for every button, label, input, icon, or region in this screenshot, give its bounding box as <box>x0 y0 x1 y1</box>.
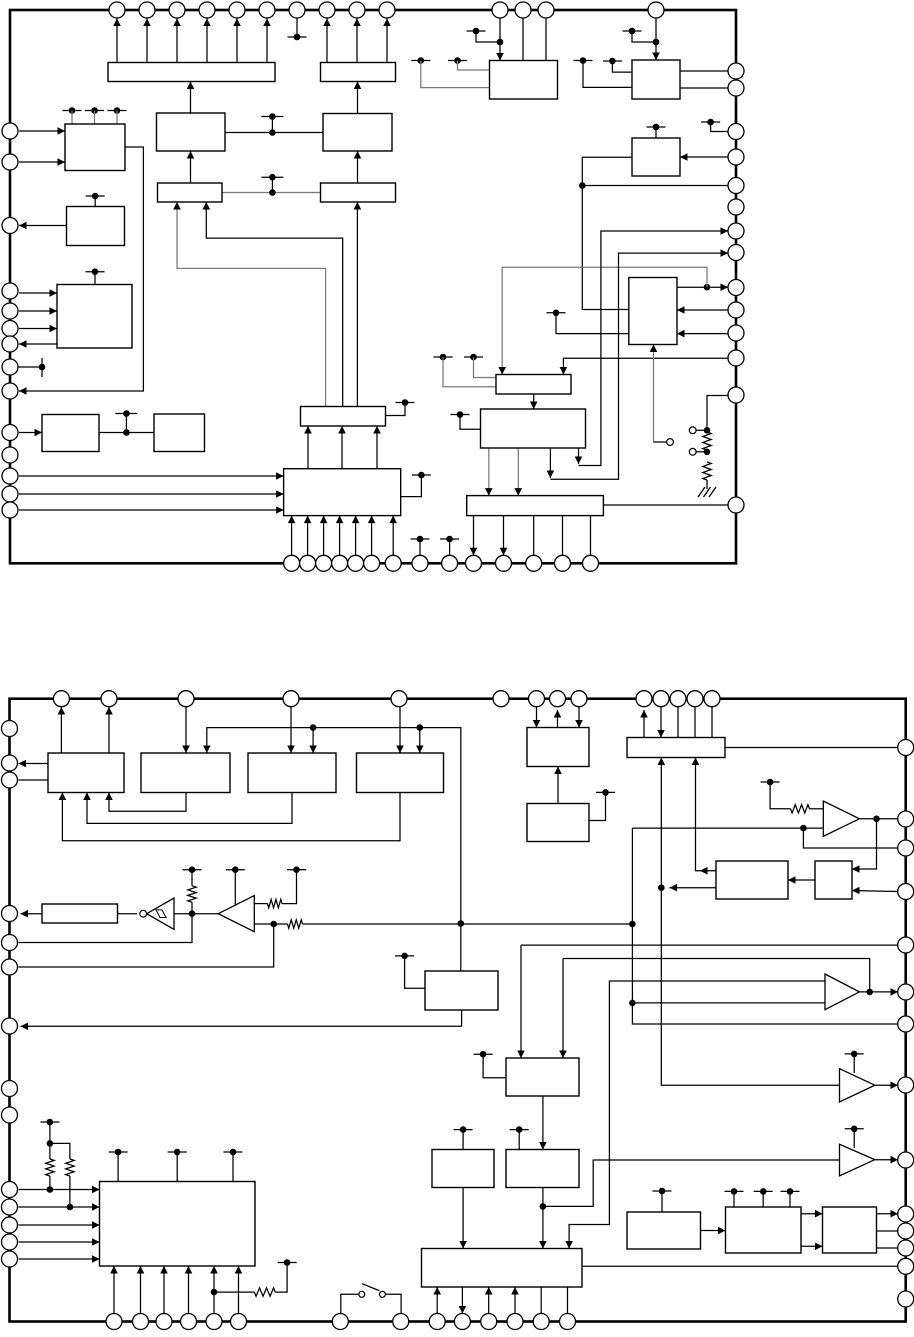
wire U4 to U2 <box>190 151 192 183</box>
wire net X to A2 lower input <box>632 1002 825 1004</box>
bottom pin 13 <box>555 555 571 571</box>
stub into W2 top <box>462 1130 464 1150</box>
stub into X3 top at x=734 <box>733 1191 735 1207</box>
wire bottom pin to X1 at x=164 <box>163 1266 165 1314</box>
wire top pin to V5 a <box>536 707 538 728</box>
latch U4 <box>158 183 223 202</box>
power tap U15 left b <box>434 356 453 358</box>
branch A1 out to V9 <box>852 819 877 869</box>
block V9 <box>815 861 852 899</box>
power tap left of U13 pin wire <box>623 30 642 32</box>
power tap U13 far left <box>574 60 593 62</box>
left pin 3 <box>2 218 18 234</box>
power tap left of V11 <box>395 955 414 957</box>
wire X2 to X3 <box>701 1230 726 1232</box>
bottom pin 7 <box>385 555 401 571</box>
left pin 7 <box>2 336 18 352</box>
wire bus A bit0 to top pin <box>116 19 118 63</box>
wire bus B bit0 to top pin <box>326 19 328 63</box>
power tap above U6 at x=72 <box>63 110 82 112</box>
wire bottom pin to mux at x=393.2 <box>392 516 394 556</box>
power tap U12 left b <box>411 60 430 62</box>
D2 top pin 8 <box>550 691 566 707</box>
D2 left pin 9 <box>2 1107 18 1123</box>
net clock row <box>207 728 461 971</box>
D2 left pin 10 <box>2 1182 18 1198</box>
right pin 5 <box>728 178 744 194</box>
stub to bottom pin x=420 <box>419 539 421 556</box>
wire bus B bit1 to top pin <box>356 19 358 63</box>
D2 top pin 13 <box>687 691 703 707</box>
switch common contact <box>667 439 674 446</box>
D2 bottom pin 6 <box>231 1314 247 1330</box>
power tap for Rc <box>278 1262 297 1264</box>
wire bottom pin to W4 c <box>514 1287 516 1314</box>
wire pin L4 to U8 <box>19 292 57 294</box>
wire U13 to pin R1 <box>680 70 728 72</box>
block U16 <box>481 409 586 448</box>
wire pin to osc input <box>19 914 193 943</box>
power tap osc right <box>287 869 306 871</box>
power tap pull-ups <box>40 1121 59 1123</box>
wire U16 down-right b <box>578 448 580 464</box>
wire A1 out to pin <box>859 818 898 820</box>
left pin 6 <box>2 321 18 337</box>
D2 top pin 12 <box>670 691 686 707</box>
ground <box>698 487 716 497</box>
wire R up to tap <box>282 870 297 904</box>
stub into U6 top at x=72 <box>71 111 73 125</box>
wire V5 to top pin <box>557 710 559 728</box>
wire bottom pin to mux at x=307.6 <box>307 516 309 556</box>
right pin 1 <box>728 63 744 79</box>
wire V1 to top pin 1 <box>60 707 62 753</box>
D2 bottom pin 12 <box>507 1314 523 1330</box>
arrowhead into V2 top <box>203 746 211 754</box>
branch into V3 top <box>312 728 314 753</box>
wire W4 to bottom pin <box>461 1287 463 1314</box>
D2 right pin 10 <box>898 1206 914 1222</box>
right pin 3 <box>728 124 744 140</box>
resistor divider upper <box>703 432 711 450</box>
Rc to tap <box>275 1263 287 1293</box>
D2 right pin 12 <box>898 1240 914 1256</box>
wire bottom pin to W4 e <box>567 1287 569 1314</box>
wire schmitt to V10 <box>118 913 137 915</box>
D2 top pin 6 <box>493 691 509 707</box>
bottom pin 3 <box>316 555 332 571</box>
top pin 12 <box>515 2 531 18</box>
wire top pin to U13 <box>655 18 657 61</box>
left pin 13 <box>2 486 18 502</box>
wire pin R9 to U15 <box>563 358 728 374</box>
wire bus A bit2 to top pin <box>176 19 178 63</box>
stub into X1 top at x=233 <box>232 1152 234 1182</box>
top pin 7 <box>289 2 305 18</box>
wire W4 to right pin <box>582 1265 898 1267</box>
stub into A3 top <box>853 1054 855 1073</box>
inverting amp U21 <box>218 896 254 932</box>
net serial V7-A3 <box>661 758 839 1086</box>
D2 top pin 4 <box>283 691 299 707</box>
switch right lead <box>386 1294 401 1313</box>
wire V1 out to pin <box>19 763 49 765</box>
D2 left pin 1 <box>2 721 18 737</box>
stub into U6 top at x=94.5 <box>94 111 96 125</box>
power tap above X3 at x=790 <box>781 1190 800 1192</box>
wire to pull-up Rc <box>214 1291 254 1293</box>
block U8 <box>57 285 132 349</box>
wire bus A bit4 to top pin <box>236 19 238 63</box>
D2 bottom pin 8 <box>393 1314 409 1330</box>
wire mux to U11 at x=308 <box>307 426 309 469</box>
D2 top pin 10 <box>636 691 652 707</box>
net A2out to W1 <box>563 959 870 992</box>
D2 right pin 4 <box>898 884 914 900</box>
wire pin L10 to U9 <box>19 432 42 434</box>
wire X3 to X4 a <box>801 1213 823 1215</box>
wire pin L1 to U6 <box>19 130 65 132</box>
block X4 <box>823 1207 877 1253</box>
switch contact b <box>689 427 696 434</box>
power tap above X3 at x=763.2 <box>754 1190 773 1192</box>
top pin 13 <box>538 2 554 18</box>
stub into X3 top at x=790 <box>789 1191 791 1207</box>
tap above bottom pin x=449.6 <box>440 538 459 540</box>
schmitt inverter U20 <box>147 898 174 929</box>
switch SW1 contact a <box>359 1291 365 1297</box>
wire bus A bit1 to top pin <box>146 19 148 63</box>
wire V7 to right pin <box>725 747 898 749</box>
D2 right pin 8 <box>898 1077 914 1093</box>
right pin 13 <box>728 387 744 403</box>
stub into U12 left b <box>421 61 490 88</box>
bottom pin 8 <box>412 555 428 571</box>
wire bottom pin to W4 d <box>540 1287 542 1314</box>
wire bottom pin to W4 b <box>488 1287 490 1314</box>
top pin 8 <box>319 2 335 18</box>
D2 bottom pin 1 <box>106 1314 122 1330</box>
block V11 <box>425 971 498 1010</box>
stub U11 right <box>386 403 406 416</box>
right pin 4 <box>728 149 744 165</box>
power tap left of W1 <box>474 1053 493 1055</box>
D2 right pin 6 <box>898 984 914 1000</box>
wire U18 to bottom pin at x=533.7 <box>533 516 535 556</box>
wire U17 to pin R6 <box>677 286 728 288</box>
resistor at A1 input <box>791 805 810 813</box>
power tap for A1 <box>761 781 780 783</box>
wire contact b to divider <box>696 429 707 431</box>
wire V8 to V7 <box>696 758 717 871</box>
block U3 <box>323 114 392 152</box>
block V2 <box>141 753 230 793</box>
D2 left pin 4 <box>2 906 18 922</box>
D2 top pin 1 <box>53 691 69 707</box>
D2 bottom pin 4 <box>181 1314 197 1330</box>
power tap above W3 <box>510 1129 529 1131</box>
top pin 11 <box>492 2 508 18</box>
bottom pin 12 <box>526 555 542 571</box>
latch U5 <box>321 183 396 202</box>
bus interface B U1b <box>321 63 396 82</box>
stub into A4 top <box>853 1129 855 1148</box>
wire pin to V1 <box>19 779 49 781</box>
tap on U4-U5 link <box>261 176 283 178</box>
wire pin R4 to U14 <box>680 156 728 158</box>
wire bottom pin to mux at x=355.6 <box>355 516 357 556</box>
top pin 5 <box>229 2 245 18</box>
bus block V7 <box>627 738 725 758</box>
wire U8 out to pin L7 <box>19 343 57 345</box>
op-amp A4 <box>840 1144 875 1176</box>
wire R1 upper lead <box>191 870 193 886</box>
power tap above U7 <box>86 195 105 197</box>
D2 right pin 9 <box>898 1152 914 1168</box>
stub tap to U12 input <box>476 31 500 42</box>
wire U18 to bottom pin at x=503.5 <box>503 516 505 556</box>
op-amp A3 <box>840 1069 875 1102</box>
wire pin to X1 c <box>19 1224 100 1226</box>
wire U16 to U18 a <box>488 448 490 496</box>
D2 right pin 13 <box>898 1258 914 1274</box>
left pin 12 <box>2 468 18 484</box>
wire bottom pin to X1 at x=214 <box>213 1266 215 1314</box>
top pin 9 <box>349 2 365 18</box>
wire pin R12 to divider <box>707 396 728 431</box>
buffer U18 <box>467 496 604 516</box>
top pin 4 <box>199 2 215 18</box>
D2 right pin 3 <box>898 840 914 856</box>
net to right pin 945 <box>521 944 898 946</box>
stub into X1 top at x=177.2 <box>176 1152 178 1182</box>
left pin 5 <box>2 303 18 319</box>
wire U3 to bus B <box>357 82 359 114</box>
wire pin R7 to U17 <box>677 309 728 311</box>
D2 right pin 2 <box>898 811 914 827</box>
stub into U12 left a <box>458 61 490 71</box>
block U6 <box>65 124 125 171</box>
D2 bottom pin 11 <box>481 1314 497 1330</box>
pull-up feed <box>49 1122 51 1159</box>
wire U13 to pin R2 <box>680 87 728 89</box>
wire pin L11 to mux <box>19 475 284 477</box>
switch contact c <box>689 448 696 455</box>
right pin 10 <box>728 302 744 318</box>
stub into U15 left b <box>443 357 496 387</box>
wire U9 to U10 <box>99 432 154 434</box>
power tap U16 left <box>451 414 470 416</box>
wire top pin to U12 c <box>545 18 547 61</box>
net U14 left to U17 <box>582 157 632 309</box>
block U14 <box>632 138 680 176</box>
power tap near pin R3 <box>701 121 720 123</box>
pull-up branch <box>50 1143 70 1159</box>
wire top pin to V5 b <box>578 707 580 728</box>
wire U16 down-right a <box>549 448 551 478</box>
power tap above X1 at x=177.2 <box>168 1151 187 1153</box>
wire inv2 out row <box>253 923 274 925</box>
power tap on pin 7 stub <box>288 36 307 38</box>
block W2 <box>432 1150 494 1188</box>
pull-up resistor Rb <box>66 1159 74 1176</box>
wire mux to U11 at x=342 <box>341 426 343 469</box>
bottom pin 14 <box>583 555 599 571</box>
wire top pin to V7 d <box>711 707 713 738</box>
net X vertical <box>632 828 898 1024</box>
wire X4 to right pin c <box>877 1247 899 1249</box>
D2 bottom pin 2 <box>133 1314 149 1330</box>
wire top pin to V3 <box>290 707 292 753</box>
wire pin L13 to mux <box>19 509 284 511</box>
net 958 to W1 top <box>562 959 564 1059</box>
D2 right pin 1 <box>898 740 914 756</box>
IC package outline (top diagram) <box>10 10 736 563</box>
tap between U9 and U10 <box>115 413 137 415</box>
pull-up resistor Rc <box>254 1288 275 1296</box>
right pin 12 <box>728 350 744 366</box>
gray wire switch to U17 <box>653 345 655 443</box>
wire X4 to right pin b <box>877 1230 899 1232</box>
stub to A1 resistor <box>770 782 790 809</box>
wire V1 to top pin 2 <box>108 707 110 753</box>
D2 left pin 12 <box>2 1217 18 1233</box>
tap on U2-U3 link <box>261 116 283 118</box>
wire V9 to V8 <box>788 879 815 881</box>
bottom pin 4 <box>332 555 348 571</box>
wire bottom pin to mux at x=291.6 <box>291 516 293 556</box>
D2 top pin 14 <box>704 691 720 707</box>
top pin 2 <box>139 2 155 18</box>
wire top pin to U12 b <box>522 18 524 61</box>
right pin 9 <box>728 280 744 296</box>
branch to right pin 848 <box>803 828 898 848</box>
wire U2-U3 link <box>225 132 323 134</box>
right pin 14 <box>728 497 744 513</box>
D2 top pin 5 <box>391 691 407 707</box>
wire U18 to bottom pin at x=473.5 <box>473 516 475 556</box>
D2 left pin 7 <box>2 1018 18 1034</box>
net Y to A2 upper input <box>569 981 825 1249</box>
bottom pin 5 <box>348 555 364 571</box>
wire bus B bit2 to top pin <box>386 19 388 63</box>
power tap U12 left a <box>448 60 467 62</box>
block U7 <box>67 207 125 246</box>
wire U4-U5 link <box>222 192 321 194</box>
switch SW1 contact b <box>379 1291 385 1297</box>
stub into U7 top <box>94 196 96 207</box>
D2 bottom pin 7 <box>332 1314 348 1330</box>
block W4 <box>422 1249 583 1288</box>
wire R to inv2 top <box>253 903 268 905</box>
wire pin L6 to U8 <box>19 328 57 330</box>
stub into X3 top at x=763.2 <box>762 1191 764 1207</box>
wire U18 to bottom pin at x=590.5 <box>590 516 592 556</box>
delay block V10 <box>42 904 118 923</box>
top pin 3 <box>169 2 185 18</box>
switch SW1 lever <box>362 1284 379 1291</box>
arrowhead at corner of V8 wire <box>700 867 708 875</box>
wire U5 to U3 <box>357 151 359 183</box>
wire V11 to left pin 1026 <box>21 1010 462 1026</box>
wire top pin to V2 <box>185 707 187 753</box>
wire to pin R10 <box>579 231 729 466</box>
wire pin to X1 b <box>19 1206 100 1208</box>
tap above bottom pin x=420 <box>411 538 430 540</box>
power tap left of U17 <box>547 312 566 314</box>
wire X3 to X4 b <box>801 1245 823 1247</box>
block V6 <box>527 804 589 842</box>
D2 top pin 7 <box>529 691 545 707</box>
wire bottom pin to mux at x=371.6 <box>371 516 373 556</box>
stub into W1 left <box>483 1054 506 1078</box>
wire U7 out to pin L3 <box>19 225 67 227</box>
wire bottom pin to X1 at x=114 <box>113 1266 115 1314</box>
wire W1 to W3 <box>542 1096 544 1150</box>
wire R to net X <box>274 923 288 925</box>
wire W2 to W4 <box>462 1188 464 1249</box>
power tap above U14 <box>647 126 666 128</box>
left pin 8 <box>2 359 18 375</box>
wire switch common <box>654 441 667 443</box>
wire V6 to V5 <box>557 767 559 804</box>
wire mux to U11 at x=377 <box>376 426 378 469</box>
wire top pin to V7 <box>660 707 662 738</box>
op-amp A2 <box>825 974 859 1010</box>
right pin 6 <box>728 199 744 215</box>
wire top pin to U12 <box>499 18 501 61</box>
power tap for A3 <box>845 1053 864 1055</box>
D2 left pin 11 <box>2 1199 18 1215</box>
wire bus A bit3 to top pin <box>206 19 208 63</box>
D2 bottom pin 5 <box>206 1314 222 1330</box>
D2 right pin 11 <box>898 1223 914 1239</box>
left pin 9 <box>2 383 18 399</box>
wire pin L5 to U8 <box>19 310 57 312</box>
bottom pin 6 <box>364 555 380 571</box>
wire W3 to W4 <box>542 1188 544 1249</box>
wire U18 to bottom pin at x=562.5 <box>562 516 564 556</box>
power tap above X3 at x=734 <box>725 1190 744 1192</box>
left pin 11 <box>2 447 18 463</box>
wire contact c to divider <box>696 451 707 453</box>
D2 left pin 2 <box>2 755 18 771</box>
feedback V2 to V1 <box>109 793 186 812</box>
latch U15 <box>496 375 571 395</box>
top pin 14 <box>648 2 664 18</box>
top pin 6 <box>259 2 275 18</box>
stub into X2 top <box>661 1191 663 1212</box>
IC package outline (bottom diagram) <box>10 699 906 1322</box>
block V4 <box>357 753 444 793</box>
power tap U15 left a <box>464 356 483 358</box>
D2 bottom pin 13 <box>533 1314 549 1330</box>
right pin 7 <box>728 223 744 239</box>
power tap right of U11 <box>396 402 415 404</box>
block X3 <box>726 1207 802 1253</box>
left pin 4 <box>2 283 18 299</box>
branch to pin R5 <box>582 185 728 187</box>
D2 left pin 3 <box>2 772 18 788</box>
block U2 <box>157 113 226 151</box>
left pin 2 <box>2 154 18 170</box>
bus interface A U1a <box>108 63 275 82</box>
stub from top pin 7 <box>296 18 298 38</box>
wire A4 out <box>875 1159 898 1161</box>
wire U11 to U4 <box>206 202 342 407</box>
block X2 <box>627 1212 701 1249</box>
wire bottom pin to W4 a <box>436 1287 438 1314</box>
